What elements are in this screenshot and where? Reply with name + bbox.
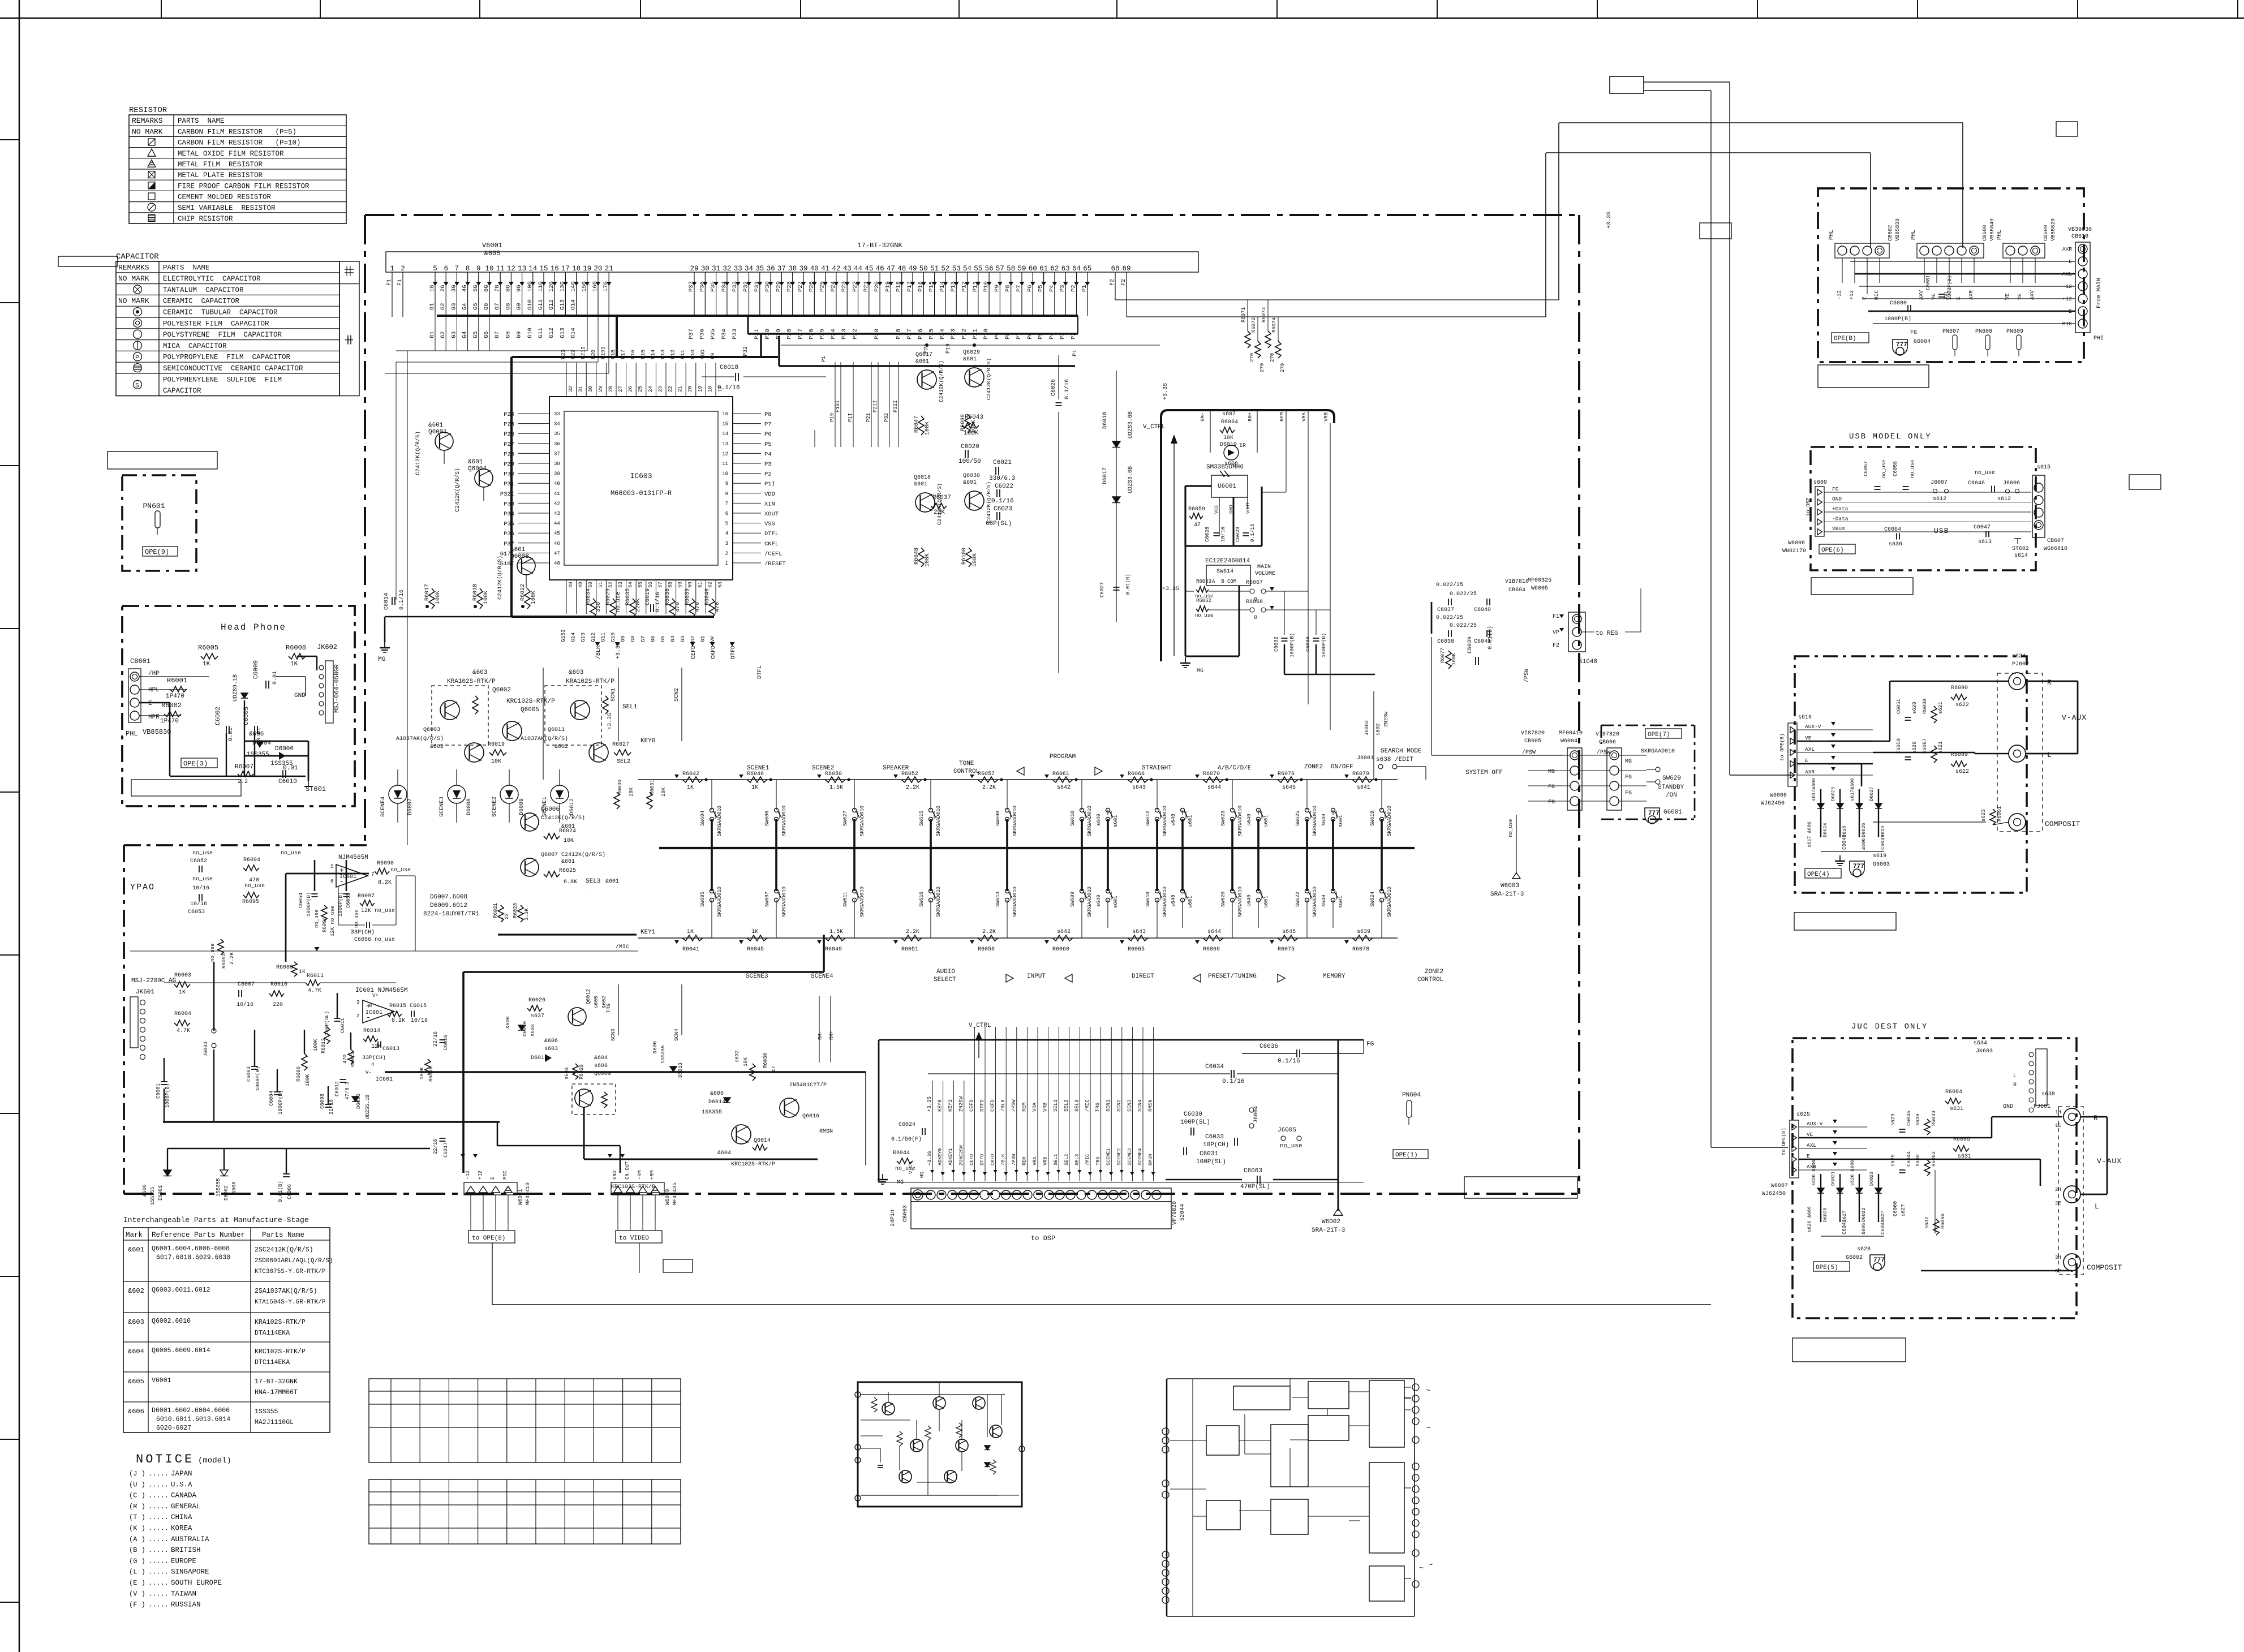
svg-text:UDZS5.1B: UDZS5.1B bbox=[365, 1094, 371, 1119]
svg-text:100/50: 100/50 bbox=[958, 458, 981, 465]
svg-text:29: 29 bbox=[598, 386, 604, 392]
svg-text:CKFD: CKFD bbox=[990, 1154, 996, 1165]
svg-text:RMSN: RMSN bbox=[1148, 1154, 1154, 1165]
svg-text:R6034: R6034 bbox=[586, 588, 592, 605]
svg-text:SEL2: SEL2 bbox=[1064, 1154, 1069, 1165]
svg-text:MG: MG bbox=[1548, 769, 1555, 775]
svg-text:FG: FG bbox=[1366, 1041, 1374, 1048]
svg-text:C6044: C6044 bbox=[1906, 1151, 1912, 1167]
svg-text:2: 2 bbox=[401, 265, 405, 273]
svg-text:47: 47 bbox=[887, 265, 895, 273]
svg-text:VI87820: VI87820 bbox=[1521, 730, 1545, 737]
svg-text:s612: s612 bbox=[1997, 496, 2011, 502]
svg-text:s617&606: s617&606 bbox=[1811, 778, 1817, 801]
svg-text:G6001: G6001 bbox=[1663, 809, 1682, 816]
svg-text:2SC2412K(Q/R/S): 2SC2412K(Q/R/S) bbox=[255, 1246, 313, 1254]
svg-text:G10: G10 bbox=[610, 633, 616, 642]
svg-text:G4: G4 bbox=[670, 635, 676, 642]
svg-text:1K: 1K bbox=[751, 929, 758, 935]
svg-text:R: R bbox=[2093, 1114, 2098, 1122]
svg-text:s642: s642 bbox=[1057, 785, 1071, 791]
svg-text:SCENE1: SCENE1 bbox=[1106, 1148, 1111, 1165]
svg-text:SCENE3: SCENE3 bbox=[439, 797, 445, 817]
svg-text:CAPACITOR: CAPACITOR bbox=[116, 252, 159, 261]
svg-text:R6042: R6042 bbox=[682, 771, 699, 777]
svg-text:SCN3: SCN3 bbox=[611, 1029, 616, 1041]
svg-text:OPE(6): OPE(6) bbox=[1821, 547, 1844, 554]
svg-text:Q6016: Q6016 bbox=[802, 1113, 819, 1120]
svg-text:6.8K: 6.8K bbox=[564, 879, 577, 885]
svg-text:Q6018: Q6018 bbox=[914, 475, 931, 481]
svg-text:JK603: JK603 bbox=[1976, 1048, 1993, 1055]
svg-text:no_use: no_use bbox=[314, 910, 320, 928]
svg-text:A/B/C/D/E: A/B/C/D/E bbox=[1218, 765, 1252, 772]
svg-text:R6075: R6075 bbox=[1278, 947, 1295, 953]
svg-text:no_use: no_use bbox=[1910, 460, 1915, 478]
svg-text:C6043: C6043 bbox=[1880, 1219, 1886, 1234]
svg-text:C6003: C6003 bbox=[246, 1066, 252, 1082]
svg-text:R6046: R6046 bbox=[747, 771, 764, 777]
svg-text:s601: s601 bbox=[1188, 815, 1193, 827]
svg-text:0.1/16: 0.1/16 bbox=[717, 385, 740, 392]
svg-text:J6007: J6007 bbox=[1931, 480, 1948, 486]
svg-text:AUX-V: AUX-V bbox=[1805, 724, 1821, 730]
svg-text:R6001: R6001 bbox=[167, 677, 187, 685]
svg-text:/BLK: /BLK bbox=[595, 646, 602, 659]
svg-text:RM-: RM- bbox=[818, 1031, 823, 1040]
svg-text:s638: s638 bbox=[2041, 1091, 2055, 1098]
svg-text:21: 21 bbox=[605, 265, 613, 273]
svg-text:G11: G11 bbox=[600, 633, 606, 642]
svg-text:5: 5 bbox=[330, 864, 333, 870]
svg-text:GND: GND bbox=[294, 692, 306, 699]
svg-text:REMARKS: REMARKS bbox=[132, 117, 163, 125]
svg-text:PN609: PN609 bbox=[2006, 329, 2023, 335]
svg-text:23: 23 bbox=[657, 386, 663, 392]
svg-text:JAPAN: JAPAN bbox=[171, 1470, 192, 1478]
svg-text:C6019: C6019 bbox=[645, 588, 651, 605]
svg-text:SW618: SW618 bbox=[1145, 892, 1151, 907]
svg-text:SW611: SW611 bbox=[842, 892, 848, 907]
svg-text:R6011: R6011 bbox=[307, 973, 324, 979]
svg-text:C6035: C6035 bbox=[1305, 636, 1311, 652]
svg-text:R6061: R6061 bbox=[1052, 771, 1069, 777]
svg-text:100K: 100K bbox=[971, 420, 977, 433]
svg-text:C6039: C6039 bbox=[1467, 636, 1473, 653]
svg-text:IC601: IC601 bbox=[339, 874, 356, 880]
svg-text:V_CTRL: V_CTRL bbox=[969, 1022, 991, 1029]
svg-text:AXV: AXV bbox=[1918, 290, 1924, 300]
svg-text:Q6002: Q6002 bbox=[492, 687, 511, 694]
svg-text:C2412K(Q/R/S): C2412K(Q/R/S) bbox=[541, 815, 585, 821]
svg-text:SKRGAAD010: SKRGAAD010 bbox=[781, 887, 787, 917]
svg-text:&601: &601 bbox=[963, 480, 977, 486]
svg-text:G4: G4 bbox=[462, 303, 468, 310]
svg-text:SKRGAAD010: SKRGAAD010 bbox=[1237, 806, 1243, 836]
svg-text:47/6.3: 47/6.3 bbox=[345, 1082, 350, 1100]
svg-text:G14: G14 bbox=[570, 299, 577, 310]
svg-text:OPE(4): OPE(4) bbox=[1807, 871, 1830, 878]
svg-text:CERAMIC CAPACITOR: CERAMIC CAPACITOR bbox=[163, 298, 240, 306]
svg-text:100P(SL): 100P(SL) bbox=[1196, 1159, 1226, 1165]
svg-text:D6019: D6019 bbox=[1220, 442, 1237, 448]
svg-text:DTC114EKA: DTC114EKA bbox=[255, 1359, 290, 1366]
svg-text:SYSTEM OFF: SYSTEM OFF bbox=[1465, 769, 1503, 776]
svg-text:W6005: W6005 bbox=[1531, 586, 1548, 592]
svg-text:s640: s640 bbox=[1096, 814, 1102, 826]
svg-text:41: 41 bbox=[821, 265, 829, 273]
svg-text:R6066: R6066 bbox=[1128, 771, 1145, 777]
svg-text:(R ): (R ) bbox=[129, 1503, 145, 1511]
svg-text:R6036: R6036 bbox=[763, 1053, 768, 1068]
svg-text:s643: s643 bbox=[1132, 785, 1146, 791]
svg-text:SW612: SW612 bbox=[1145, 811, 1151, 826]
svg-text:C6030: C6030 bbox=[1184, 1111, 1202, 1118]
svg-text:6020-6027: 6020-6027 bbox=[156, 1425, 191, 1432]
svg-text:&605: &605 bbox=[128, 1378, 144, 1386]
svg-text:no_use: no_use bbox=[1975, 470, 1995, 476]
svg-text:C6060: C6060 bbox=[1893, 1201, 1898, 1216]
svg-text:J6002: J6002 bbox=[1364, 720, 1370, 735]
svg-text:61: 61 bbox=[698, 582, 703, 588]
svg-text:DTFL: DTFL bbox=[764, 531, 779, 537]
svg-text:L: L bbox=[2095, 1202, 2099, 1211]
svg-text:L: L bbox=[2047, 751, 2052, 759]
svg-text:5: 5 bbox=[725, 521, 728, 527]
svg-text:0.022/25: 0.022/25 bbox=[1436, 614, 1463, 621]
svg-text:R6002: R6002 bbox=[161, 702, 182, 709]
svg-text:PHL: PHL bbox=[126, 730, 138, 738]
svg-text:C6037: C6037 bbox=[1436, 604, 1438, 605]
svg-text:E: E bbox=[1805, 758, 1808, 764]
svg-text:12K: 12K bbox=[371, 1044, 381, 1050]
svg-text:DTFD: DTFD bbox=[979, 1099, 985, 1112]
svg-text:31: 31 bbox=[712, 265, 720, 273]
svg-text:SW615: SW615 bbox=[919, 811, 925, 826]
svg-text:35: 35 bbox=[554, 431, 560, 437]
svg-text:KEY0: KEY0 bbox=[761, 786, 763, 787]
svg-text:SKRGAAD010: SKRGAAD010 bbox=[1012, 806, 1018, 836]
svg-text:&603: &603 bbox=[128, 1318, 144, 1326]
svg-text:AUDIO: AUDIO bbox=[936, 969, 955, 975]
svg-text:VRA: VRA bbox=[1032, 1156, 1038, 1165]
svg-text:ZONE2: ZONE2 bbox=[1425, 969, 1443, 975]
svg-text:54: 54 bbox=[963, 265, 971, 273]
svg-text:SINGAPORE: SINGAPORE bbox=[171, 1568, 209, 1576]
svg-text:33P(CH): 33P(CH) bbox=[351, 929, 375, 936]
svg-text:no_use: no_use bbox=[192, 876, 213, 883]
svg-text:13: 13 bbox=[518, 265, 526, 273]
svg-text:61: 61 bbox=[1039, 265, 1048, 273]
svg-text:R6049: R6049 bbox=[825, 947, 842, 953]
svg-text:F2: F2 bbox=[1110, 279, 1116, 286]
svg-text:ST602: ST602 bbox=[2012, 546, 2029, 552]
svg-text:1SS355: 1SS355 bbox=[702, 1109, 722, 1116]
svg-text:P21I: P21I bbox=[872, 400, 878, 412]
svg-text:GND: GND bbox=[1832, 496, 1842, 502]
svg-text:s602: s602 bbox=[1375, 723, 1381, 735]
svg-text:s622: s622 bbox=[1955, 702, 1969, 708]
svg-text:G14: G14 bbox=[570, 633, 577, 642]
svg-text:SKRGAAD010: SKRGAAD010 bbox=[859, 806, 865, 836]
svg-text:KEY0: KEY0 bbox=[640, 738, 655, 745]
svg-text:220: 220 bbox=[273, 1002, 283, 1008]
svg-text:63: 63 bbox=[717, 582, 723, 588]
svg-text:TRG: TRG bbox=[1095, 1157, 1101, 1165]
svg-text:RMSN: RMSN bbox=[819, 1129, 833, 1135]
svg-text:1SS355: 1SS355 bbox=[216, 1178, 221, 1197]
svg-text:to OPE(8): to OPE(8) bbox=[472, 1235, 505, 1242]
svg-text:s644: s644 bbox=[1207, 785, 1221, 791]
svg-text:s638 /EDIT: s638 /EDIT bbox=[1376, 756, 1413, 763]
svg-text:C6054: C6054 bbox=[298, 893, 304, 908]
svg-text:G8: G8 bbox=[630, 635, 636, 642]
svg-text:R6021: R6021 bbox=[493, 903, 498, 918]
svg-text:/RESET: /RESET bbox=[764, 561, 786, 567]
svg-text:C6046: C6046 bbox=[1968, 480, 1985, 487]
svg-text:27: 27 bbox=[618, 386, 624, 392]
svg-text:D6023: D6023 bbox=[1869, 1171, 1875, 1186]
svg-text:G13: G13 bbox=[559, 328, 566, 338]
svg-text:40: 40 bbox=[810, 265, 819, 273]
svg-text:1E: 1E bbox=[2055, 1123, 2061, 1129]
svg-text:/CEFL: /CEFL bbox=[764, 550, 783, 557]
svg-text:no_use: no_use bbox=[390, 867, 411, 874]
svg-text:C6023: C6023 bbox=[994, 506, 1012, 513]
svg-text:OPE(B): OPE(B) bbox=[1834, 335, 1856, 342]
svg-text:4G: 4G bbox=[462, 285, 468, 292]
svg-text:33: 33 bbox=[554, 411, 560, 417]
svg-text:PHI: PHI bbox=[2093, 335, 2104, 342]
svg-text:5G: 5G bbox=[472, 285, 479, 292]
svg-text:C6015: C6015 bbox=[410, 1003, 427, 1009]
svg-text:(J ): (J ) bbox=[129, 1470, 145, 1478]
svg-text:SW607: SW607 bbox=[764, 892, 770, 907]
svg-text:CB610: CB610 bbox=[2071, 234, 2088, 240]
svg-text:SW605: SW605 bbox=[700, 892, 706, 907]
svg-text:2E: 2E bbox=[2055, 1201, 2061, 1206]
svg-text:s603: s603 bbox=[530, 1024, 536, 1036]
svg-text:OPE(7): OPE(7) bbox=[1648, 732, 1670, 738]
svg-text:OPE(3): OPE(3) bbox=[183, 760, 208, 768]
svg-text:R6064: R6064 bbox=[1221, 419, 1238, 425]
svg-text:CEFD: CEFD bbox=[691, 646, 697, 659]
svg-text:G7: G7 bbox=[640, 636, 646, 642]
svg-text:D6027: D6027 bbox=[1869, 786, 1875, 801]
svg-text:&602: &602 bbox=[554, 744, 568, 750]
svg-text:R6088: R6088 bbox=[1922, 699, 1928, 714]
svg-text:C6045: C6045 bbox=[1906, 1111, 1912, 1126]
svg-text:s601: s601 bbox=[1113, 896, 1119, 908]
svg-text:R6003: R6003 bbox=[174, 973, 191, 979]
svg-text:SKRGAAD010: SKRGAAD010 bbox=[936, 806, 942, 836]
svg-text:MIC: MIC bbox=[502, 1170, 508, 1180]
svg-text:1: 1 bbox=[725, 561, 728, 566]
svg-text:G12: G12 bbox=[548, 299, 555, 310]
svg-text:3G: 3G bbox=[450, 285, 457, 292]
svg-text:VRB: VRB bbox=[1043, 1102, 1048, 1112]
svg-text:40: 40 bbox=[554, 481, 560, 487]
svg-text:P20: P20 bbox=[590, 350, 596, 359]
svg-text:NO MARK: NO MARK bbox=[132, 127, 163, 136]
svg-text:C6036: C6036 bbox=[1259, 1043, 1278, 1050]
svg-text:SW619: SW619 bbox=[1370, 811, 1375, 826]
svg-text:C6050: C6050 bbox=[1896, 738, 1902, 754]
svg-text:s604: s604 bbox=[564, 1067, 570, 1079]
svg-text:6: 6 bbox=[444, 265, 448, 273]
svg-text:Parts Name: Parts Name bbox=[262, 1231, 304, 1239]
svg-text:R6072: R6072 bbox=[1251, 317, 1257, 333]
svg-text:10/16: 10/16 bbox=[237, 1001, 253, 1008]
svg-text:s631: s631 bbox=[1950, 1106, 1963, 1112]
svg-text:U.S.A: U.S.A bbox=[171, 1481, 192, 1488]
svg-text:8G: 8G bbox=[505, 285, 511, 292]
svg-text:GND: GND bbox=[2003, 1104, 2013, 1110]
svg-text:C6034: C6034 bbox=[1205, 1064, 1224, 1070]
svg-text:C6058: C6058 bbox=[1893, 461, 1898, 476]
svg-text:R6004: R6004 bbox=[174, 1011, 191, 1017]
svg-text:G3: G3 bbox=[680, 635, 686, 642]
svg-text:VRA: VRA bbox=[1301, 412, 1307, 421]
svg-text:SW620: SW620 bbox=[1220, 892, 1226, 907]
svg-text:OPE(9): OPE(9) bbox=[145, 548, 169, 556]
svg-text:P3: P3 bbox=[764, 461, 772, 468]
svg-text:46: 46 bbox=[876, 265, 884, 273]
svg-text:SKRGAAD010: SKRGAAD010 bbox=[1162, 806, 1168, 836]
svg-text:CB609: CB609 bbox=[2043, 225, 2049, 241]
svg-text:R6077: R6077 bbox=[1440, 648, 1446, 663]
svg-text:W6004: W6004 bbox=[1561, 738, 1577, 745]
svg-text:36: 36 bbox=[767, 265, 775, 273]
svg-text:.....: ..... bbox=[148, 1535, 169, 1543]
svg-text:C6018: C6018 bbox=[720, 364, 738, 371]
svg-text:s621: s621 bbox=[1938, 702, 1944, 714]
svg-text:C6020: C6020 bbox=[961, 444, 979, 450]
svg-text:41: 41 bbox=[554, 491, 560, 497]
svg-text:G15I: G15I bbox=[560, 629, 566, 642]
svg-text:63: 63 bbox=[1061, 265, 1070, 273]
svg-text:C6013: C6013 bbox=[382, 1046, 399, 1052]
svg-text:CB602: CB602 bbox=[1887, 225, 1893, 241]
svg-text:C6032: C6032 bbox=[1274, 636, 1279, 652]
svg-text:SKRGAAD010: SKRGAAD010 bbox=[1162, 887, 1168, 917]
svg-text:G9: G9 bbox=[516, 303, 523, 310]
svg-text:Head Phone: Head Phone bbox=[221, 622, 286, 633]
svg-text:F2: F2 bbox=[1553, 643, 1559, 649]
svg-text:CKFD: CKFD bbox=[711, 646, 717, 659]
svg-text:D6009: D6009 bbox=[519, 798, 525, 815]
svg-text:(B ): (B ) bbox=[129, 1546, 145, 1554]
svg-text:10K: 10K bbox=[491, 759, 501, 765]
svg-text:to REG: to REG bbox=[1596, 630, 1618, 637]
svg-text:R6062: R6062 bbox=[1196, 598, 1211, 604]
svg-text:0.1/16: 0.1/16 bbox=[1222, 1078, 1245, 1085]
svg-text:270: 270 bbox=[1249, 353, 1255, 362]
svg-text:/PSW: /PSW bbox=[1523, 669, 1530, 682]
svg-text:R6084: R6084 bbox=[1945, 1089, 1962, 1095]
svg-text:G6: G6 bbox=[650, 635, 656, 642]
svg-text:9: 9 bbox=[476, 265, 481, 273]
svg-text:10: 10 bbox=[722, 471, 728, 477]
svg-text:10K: 10K bbox=[629, 787, 634, 797]
svg-text:P: P bbox=[135, 355, 139, 362]
svg-text:9G: 9G bbox=[516, 285, 523, 292]
svg-text:56: 56 bbox=[985, 265, 994, 273]
svg-text:C6008: C6008 bbox=[320, 1094, 325, 1109]
svg-text:s640: s640 bbox=[1171, 894, 1176, 907]
svg-text:INPUT: INPUT bbox=[1027, 973, 1046, 980]
svg-text:7: 7 bbox=[455, 265, 459, 273]
svg-text:NO MARK: NO MARK bbox=[118, 274, 149, 283]
svg-text:BRITISH: BRITISH bbox=[171, 1546, 201, 1554]
svg-text:P1: P1 bbox=[1081, 285, 1088, 292]
svg-text:&601: &601 bbox=[914, 481, 927, 488]
svg-text:P10: P10 bbox=[690, 350, 696, 359]
svg-text:s632: s632 bbox=[734, 1050, 740, 1062]
svg-text:s637: s637 bbox=[531, 1013, 544, 1019]
svg-text:G6002: G6002 bbox=[1846, 1255, 1863, 1261]
svg-text:to DSP: to DSP bbox=[1031, 1234, 1055, 1242]
svg-text:11: 11 bbox=[722, 461, 728, 467]
svg-text:7: 7 bbox=[371, 872, 374, 877]
svg-text:FG: FG bbox=[1548, 799, 1555, 806]
svg-text:MEMORY: MEMORY bbox=[1323, 973, 1345, 980]
svg-text:V-AUX: V-AUX bbox=[2097, 1157, 2122, 1165]
svg-text:/MIC: /MIC bbox=[1085, 1099, 1090, 1112]
svg-text:SCENE4: SCENE4 bbox=[380, 797, 386, 817]
svg-text:17: 17 bbox=[561, 265, 570, 273]
svg-text:14: 14 bbox=[722, 431, 728, 437]
svg-text:PARTS NAME: PARTS NAME bbox=[178, 117, 225, 125]
svg-text:GENERAL: GENERAL bbox=[171, 1503, 201, 1511]
svg-text:Q6004: Q6004 bbox=[468, 466, 487, 472]
svg-text:G6: G6 bbox=[483, 303, 490, 310]
svg-text:58: 58 bbox=[1007, 265, 1015, 273]
svg-text:s601: s601 bbox=[1263, 896, 1269, 908]
svg-text:R6082: R6082 bbox=[1931, 1151, 1937, 1167]
svg-text:Reference Parts Number: Reference Parts Number bbox=[152, 1231, 245, 1239]
svg-text:R6063: R6063 bbox=[1196, 579, 1211, 584]
svg-text:R6071: R6071 bbox=[1241, 307, 1246, 322]
svg-text:+12: +12 bbox=[1848, 290, 1855, 300]
svg-text:C6028: C6028 bbox=[1205, 527, 1210, 542]
svg-text:1000P(B): 1000P(B) bbox=[1947, 276, 1953, 300]
svg-text:VBus: VBus bbox=[1832, 526, 1845, 532]
svg-text:24Pin: 24Pin bbox=[889, 1210, 896, 1227]
svg-text:P1: P1 bbox=[821, 356, 827, 362]
svg-text:DIRECT: DIRECT bbox=[1132, 973, 1154, 980]
svg-text:C6029: C6029 bbox=[1235, 527, 1241, 542]
svg-text:D6025: D6025 bbox=[1830, 786, 1836, 801]
svg-text:DTA114EKA: DTA114EKA bbox=[255, 1330, 290, 1337]
svg-text:P12: P12 bbox=[670, 350, 676, 359]
svg-text:36: 36 bbox=[554, 441, 560, 447]
svg-text:P7: P7 bbox=[1016, 285, 1022, 292]
svg-text:U6001: U6001 bbox=[1218, 483, 1236, 490]
svg-text:&604: &604 bbox=[594, 1055, 608, 1061]
svg-text:V_CN: V_CN bbox=[908, 1161, 914, 1174]
svg-text:RM+: RM+ bbox=[1248, 412, 1253, 421]
svg-text:C6080: C6080 bbox=[1890, 300, 1907, 307]
svg-text:KOREA: KOREA bbox=[171, 1525, 192, 1533]
svg-text:ADKEY0: ADKEY0 bbox=[938, 1148, 943, 1165]
svg-text:V-AUX: V-AUX bbox=[2062, 713, 2087, 722]
svg-text:P34: P34 bbox=[721, 329, 728, 339]
svg-text:Q6005.6009.6014: Q6005.6009.6014 bbox=[152, 1347, 210, 1354]
svg-text:G9: G9 bbox=[620, 635, 626, 642]
svg-text:no_use: no_use bbox=[1881, 460, 1887, 478]
svg-text:VB85840: VB85840 bbox=[1989, 218, 1995, 241]
